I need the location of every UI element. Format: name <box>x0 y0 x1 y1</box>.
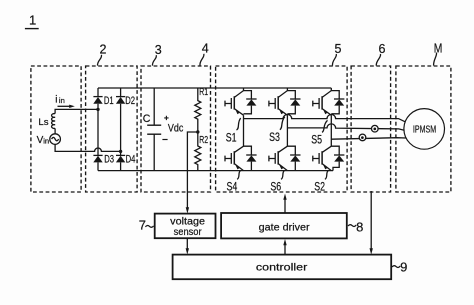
svg-text:i: i <box>55 95 57 106</box>
freewheel diode of S6 <box>287 146 300 170</box>
label S6 <box>270 171 284 194</box>
voltage sensor box 7 <box>155 214 216 239</box>
label S4 <box>227 171 241 194</box>
label S1 <box>226 118 241 144</box>
bottom DC rail <box>98 170 333 172</box>
label 8 <box>348 219 363 234</box>
svg-text:D1: D1 <box>104 95 114 107</box>
svg-text:gate driver: gate driver <box>259 222 311 233</box>
phase line A <box>244 114 407 122</box>
svg-text:4: 4 <box>202 42 209 56</box>
dashed block 3 (rectifier) <box>86 66 138 192</box>
svg-text:S3: S3 <box>269 130 280 144</box>
wire phase leg <box>243 115 245 146</box>
svg-text:R2: R2 <box>199 135 208 146</box>
svg-text:S2: S2 <box>314 180 325 194</box>
svg-text:S4: S4 <box>227 180 238 194</box>
label Vin <box>37 135 50 146</box>
label 6 <box>376 42 385 66</box>
dashed block 2 (AC source) <box>31 66 81 192</box>
arrow into inverter <box>283 194 286 200</box>
gate driver box 8 <box>221 213 347 238</box>
wire: inductor to source circle <box>54 128 56 134</box>
svg-text:D2: D2 <box>125 95 135 107</box>
node: bridge left top corner <box>97 88 99 97</box>
wire: controller up to gate driver <box>284 245 286 255</box>
arrow into gate driver <box>283 239 286 245</box>
node B: AC bottom junction <box>119 150 122 153</box>
IGBT S6 <box>269 146 288 170</box>
svg-text:9: 9 <box>400 260 407 275</box>
AC source Vin <box>50 134 61 145</box>
svg-text:Ls: Ls <box>38 117 48 128</box>
wire phase leg <box>330 115 332 146</box>
label 2 <box>98 43 107 66</box>
freewheel diode of S1 <box>244 91 257 114</box>
current sensor 1 <box>372 125 379 132</box>
wire phase leg <box>286 115 288 146</box>
diode D2 <box>116 88 125 155</box>
phase line C <box>331 138 406 140</box>
freewheel diode of S2 <box>331 146 344 170</box>
IGBT S3 <box>269 88 288 115</box>
label S2 <box>314 171 328 194</box>
capacitor C <box>147 88 161 171</box>
wire: current sensors down to controller <box>370 191 372 249</box>
label 3 <box>152 43 161 66</box>
resistor R2 <box>195 132 201 171</box>
current sensor 2 <box>359 134 366 141</box>
svg-text:6: 6 <box>379 42 386 56</box>
svg-text:IPMSM: IPMSM <box>413 124 436 135</box>
IGBT S1 <box>225 88 244 115</box>
diode D4 <box>116 155 125 170</box>
svg-text:in: in <box>59 96 65 105</box>
motor IPMSM <box>404 109 445 150</box>
svg-text:1: 1 <box>29 13 36 28</box>
label 5 <box>332 42 341 66</box>
IGBT S4 <box>225 146 244 170</box>
dashed block 6 (current sensors) <box>351 66 391 192</box>
node A: AC top junction <box>96 108 99 111</box>
figure number 1 <box>25 13 39 29</box>
arrow into controller from sensors <box>370 248 373 254</box>
freewheel diode of S5 <box>331 91 344 114</box>
wire: sense tap to voltage sensor <box>187 132 197 208</box>
label S5 <box>311 120 327 146</box>
controller box 9 <box>173 255 392 280</box>
svg-text:7: 7 <box>139 218 146 233</box>
freewheel diode of S3 <box>287 91 300 114</box>
node C: divider tap <box>196 130 199 133</box>
IGBT S5 <box>313 88 332 115</box>
svg-text:S1: S1 <box>226 130 237 144</box>
minus sign <box>162 139 167 141</box>
top DC rail <box>98 87 331 89</box>
resistor R1 <box>195 88 201 132</box>
label 9 <box>392 260 407 275</box>
diode D1 <box>93 97 102 156</box>
dashed block 5 (inverter) <box>216 66 348 192</box>
svg-text:controller: controller <box>256 262 308 273</box>
IGBT S2 <box>313 146 332 170</box>
svg-text:R1: R1 <box>199 87 208 98</box>
svg-text:D4: D4 <box>126 153 136 165</box>
svg-text:C: C <box>143 113 151 125</box>
svg-text:in: in <box>43 136 49 145</box>
label M <box>434 41 443 65</box>
svg-text:D3: D3 <box>104 153 114 165</box>
label S3 <box>269 117 285 144</box>
wire: source bottom to bridge with hop <box>55 144 121 151</box>
inductor Ls <box>52 114 56 129</box>
svg-text:2: 2 <box>100 43 107 57</box>
arrow into controller from sensor <box>186 248 189 254</box>
svg-text:sensor: sensor <box>174 227 203 238</box>
label 7 <box>139 218 154 233</box>
svg-text:Vdc: Vdc <box>168 122 184 134</box>
plus sign <box>164 116 168 120</box>
current label i_in <box>55 95 65 106</box>
phase line B <box>287 124 406 131</box>
current arrow <box>58 105 75 108</box>
svg-text:8: 8 <box>356 219 363 234</box>
svg-text:S5: S5 <box>311 133 322 147</box>
dashed block 4 (DC link) <box>141 66 211 192</box>
wire: gate driver up to inverter <box>284 199 286 213</box>
svg-text:S6: S6 <box>270 180 281 194</box>
dashed block M (motor) <box>396 66 451 192</box>
wire: source top to bridge <box>55 109 98 113</box>
arrow into voltage sensor <box>186 207 189 213</box>
freewheel diode of S4 <box>244 146 257 170</box>
svg-text:M: M <box>434 41 443 55</box>
label 4 <box>200 42 209 66</box>
svg-text:voltage: voltage <box>170 216 205 227</box>
wire: voltage sensor to controller <box>186 238 188 248</box>
svg-text:5: 5 <box>335 42 342 56</box>
svg-text:3: 3 <box>155 43 162 57</box>
diode D3 <box>93 155 102 170</box>
